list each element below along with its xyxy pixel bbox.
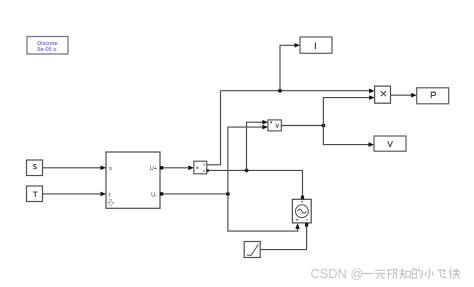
display block I bbox=[300, 37, 332, 53]
wire s to subsystem bbox=[43, 166, 107, 171]
svg-text:U-: U- bbox=[151, 192, 157, 198]
Discrete solver info block bbox=[27, 37, 68, 55]
wire U+ to current measurement bbox=[163, 166, 194, 171]
svg-text:s: s bbox=[109, 166, 112, 172]
source top port pad bbox=[301, 196, 304, 200]
ramp block bbox=[244, 242, 260, 258]
voltage measurement block bbox=[268, 120, 281, 131]
wire VM output to junction bbox=[281, 125, 323, 127]
display block V bbox=[374, 136, 406, 151]
wire T to subsystem bbox=[43, 192, 107, 197]
junction voltage line bbox=[322, 124, 326, 128]
junction U- line bbox=[226, 192, 230, 196]
svg-text:5e-05 s.: 5e-05 s. bbox=[37, 47, 58, 53]
junction current line bbox=[278, 89, 282, 93]
port nub U- bbox=[160, 192, 163, 195]
wire branch up to I display bbox=[280, 43, 300, 91]
subsystem physical icon bbox=[108, 200, 114, 207]
wire product to P display bbox=[391, 93, 417, 98]
wire voltage to product bbox=[323, 95, 374, 125]
wire branch to voltage measurement plus bbox=[247, 120, 268, 170]
wire ramp to source control bbox=[261, 227, 307, 250]
PV subsystem U1 bbox=[106, 152, 160, 208]
current measurement block bbox=[194, 161, 209, 174]
wire branch to voltage measurement minus bbox=[228, 125, 268, 194]
port nub U+ bbox=[160, 166, 163, 169]
wire i- measurement output up to current line bbox=[207, 91, 221, 165]
watermark CJK glyphs bbox=[363, 268, 460, 278]
constant block s bbox=[27, 160, 43, 176]
constant block T bbox=[27, 186, 43, 202]
source bottom right pad bbox=[305, 223, 308, 227]
product block x bbox=[375, 86, 391, 103]
wire current signal line bbox=[221, 89, 375, 94]
wire U- to junction and down to source return bbox=[163, 194, 300, 231]
electrical wire CM to controlled source top bbox=[207, 170, 303, 196]
svg-text:CSDN @: CSDN @ bbox=[311, 266, 364, 281]
display block P bbox=[417, 88, 449, 104]
junction electrical line bbox=[245, 169, 249, 173]
controlled source block bbox=[292, 199, 311, 223]
svg-text:U+: U+ bbox=[150, 166, 157, 172]
wire voltage to V display bbox=[323, 126, 374, 147]
